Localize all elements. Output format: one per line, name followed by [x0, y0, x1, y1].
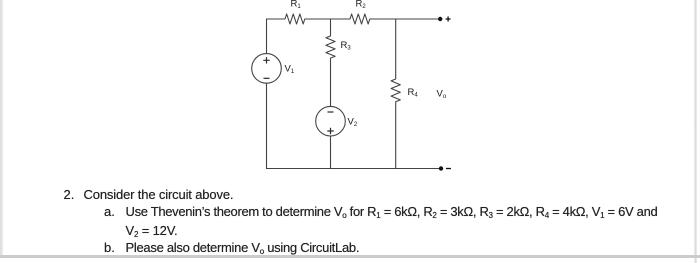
svg-text:R4: R4 [408, 87, 419, 99]
svg-text:R2: R2 [356, 0, 367, 10]
svg-text:Vo: Vo [437, 89, 447, 101]
svg-text:V2: V2 [348, 117, 358, 129]
svg-text:R1: R1 [291, 0, 302, 10]
svg-text:R3: R3 [341, 40, 352, 52]
svg-text:V1: V1 [285, 64, 295, 76]
